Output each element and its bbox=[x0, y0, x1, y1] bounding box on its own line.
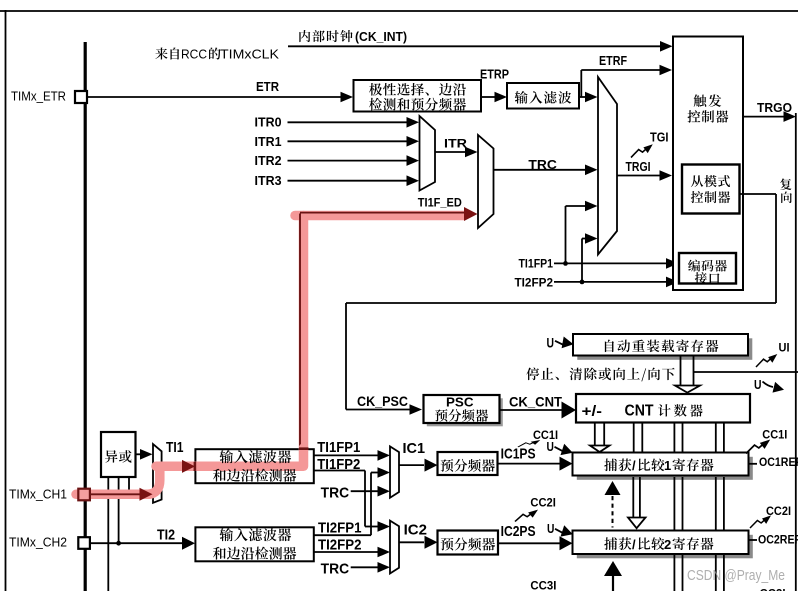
svg-text:CC1I: CC1I bbox=[762, 428, 787, 442]
svg-text:PSC: PSC bbox=[446, 396, 474, 410]
wire: dashed capture arrow (up into CC1) bbox=[612, 496, 614, 528]
wire TRGO bbox=[743, 116, 787, 118]
wire: chip right boundary bbox=[795, 113, 797, 591]
mux: IC1 selector bbox=[390, 446, 399, 497]
svg-text:ITR: ITR bbox=[444, 136, 467, 150]
bus: vertical pair C bbox=[715, 423, 717, 453]
watermark CSDN @Pray_Me bbox=[687, 568, 785, 584]
box: CNT 计数器 (counter) bbox=[576, 394, 750, 423]
mux: IC2 selector bbox=[390, 521, 399, 574]
box: 触发控制器 (trigger controller) bbox=[673, 37, 743, 291]
svg-text:TI1F_ED: TI1F_ED bbox=[418, 196, 462, 210]
wire CK_INT bbox=[288, 45, 662, 47]
frame: figure left border bbox=[5, 10, 7, 591]
mux: TRC source selector bbox=[478, 135, 494, 228]
box: 极性选择、边沿检测和预分频器 bbox=[354, 80, 482, 112]
bus: CNT to CC1 (hollow arrow) bbox=[594, 423, 596, 446]
wire IC1PS bbox=[498, 463, 562, 465]
wire: chip left boundary bbox=[84, 42, 87, 591]
wire: XOR input from CH3 (off-screen) bbox=[107, 477, 109, 591]
svg-text:TI2FP2: TI2FP2 bbox=[515, 275, 554, 289]
svg-text:ETR: ETR bbox=[256, 80, 279, 94]
wire OC1REF bbox=[749, 463, 758, 465]
box: 预分频器 (IC2 prescaler) bbox=[438, 531, 499, 555]
svg-text:U: U bbox=[754, 377, 762, 392]
svg-text:U: U bbox=[547, 336, 555, 351]
label: 停止、清除或向上/向下 bbox=[526, 367, 539, 380]
svg-text:UI: UI bbox=[779, 342, 790, 354]
svg-text:TI2FP2: TI2FP2 bbox=[318, 537, 362, 554]
wire: update event line (right) bbox=[694, 371, 798, 373]
node: junction TI2FP2 bbox=[580, 280, 585, 285]
box: 异或 (XOR) bbox=[101, 432, 136, 477]
bus: vertical pair A (CNT down) bbox=[633, 423, 635, 453]
wire TI1 from CH1 (dark red under highlight) bbox=[90, 493, 141, 495]
svg-text:CNT: CNT bbox=[625, 402, 654, 419]
wire: capture arrow up into CC2 bbox=[612, 574, 614, 591]
box: 输入滤波器和边沿检测器 (channel 1) bbox=[195, 449, 313, 483]
bus: vertical pair C (below CC2) bbox=[715, 555, 717, 591]
svg-text:ITR1: ITR1 bbox=[255, 135, 282, 149]
box: 输入滤波 (ETR input filter) bbox=[507, 83, 579, 109]
wire: slave controller feedback to CK_PSC bbox=[740, 193, 777, 195]
svg-text:TRC: TRC bbox=[321, 561, 350, 578]
svg-text:CC3I: CC3I bbox=[760, 587, 786, 591]
svg-text:U: U bbox=[547, 521, 554, 536]
bus: CC1 to CC2 (hollow arrow) bbox=[632, 477, 634, 518]
svg-text:ITR0: ITR0 bbox=[255, 115, 282, 129]
box: 编码器接口 (encoder interface) bbox=[679, 253, 736, 284]
box: 捕获/比较1寄存器 (capture/compare reg 1, shadowed) bbox=[577, 457, 753, 480]
box: 从模式控制器 (slave mode controller) bbox=[682, 165, 740, 214]
svg-text:+/-: +/- bbox=[582, 403, 603, 420]
wire: XOR input from CH1 bbox=[128, 477, 130, 494]
wire: XOR input from CH2 bbox=[118, 477, 120, 543]
bus: ARR to CNT (hollow arrow) bbox=[680, 356, 682, 386]
wire: highlight crossing marks (box border under band) bbox=[299, 447, 309, 450]
event CC1I (right) bbox=[746, 440, 770, 454]
mux: trigger input selector bbox=[598, 77, 617, 255]
svg-text:(CK_INT): (CK_INT) bbox=[355, 30, 407, 44]
svg-text:OC1REF: OC1REF bbox=[759, 455, 798, 469]
svg-text:IC2: IC2 bbox=[404, 521, 427, 538]
event UI bbox=[756, 354, 777, 367]
bus: vertical pair C (CC1-CC2) bbox=[715, 477, 717, 530]
label: 来自RCC的TIMxCLK bbox=[155, 48, 167, 60]
svg-text:TRGI: TRGI bbox=[626, 160, 651, 174]
mux: TI1 selector bbox=[153, 444, 162, 503]
svg-text:TIMxCLK: TIMxCLK bbox=[220, 47, 279, 62]
red highlight path: TI1F_ED segment (pink band) bbox=[295, 216, 464, 464]
svg-text:TI2FP1: TI2FP1 bbox=[318, 520, 362, 537]
svg-text:IC2PS: IC2PS bbox=[501, 523, 536, 540]
wire: XOR output to TI1 mux bbox=[136, 453, 143, 455]
svg-text:ITR2: ITR2 bbox=[255, 154, 282, 168]
svg-text:CK_PSC: CK_PSC bbox=[357, 394, 408, 409]
svg-text:IC1: IC1 bbox=[403, 440, 426, 457]
svg-text:IC1PS: IC1PS bbox=[501, 445, 536, 462]
box: 自动重装载寄存器 (auto-reload register, shadowed) bbox=[577, 338, 752, 360]
svg-text:TIMx_ETR: TIMx_ETR bbox=[11, 89, 66, 104]
svg-text:TIMx_CH2: TIMx_CH2 bbox=[9, 535, 67, 550]
svg-text:TRGO: TRGO bbox=[757, 101, 792, 115]
wire ETRF branch bbox=[579, 96, 587, 98]
svg-text:TI1: TI1 bbox=[166, 439, 184, 456]
svg-text:TIMx_CH1: TIMx_CH1 bbox=[9, 487, 67, 502]
svg-text:CK_CNT: CK_CNT bbox=[509, 395, 563, 410]
label: 内部时钟 (CK_INT) bbox=[299, 30, 310, 42]
svg-text:RCC: RCC bbox=[181, 47, 207, 62]
svg-text:U: U bbox=[547, 439, 554, 454]
svg-text:TGI: TGI bbox=[650, 131, 669, 145]
bus: vertical pair B (below CC2) bbox=[673, 555, 675, 591]
node: junction XOR-CH2 bbox=[116, 541, 121, 546]
bus: vertical pair B (CC1-CC2) bbox=[673, 477, 675, 530]
svg-text:ITR3: ITR3 bbox=[255, 174, 282, 188]
event TGI bbox=[631, 144, 653, 157]
svg-text:CC2I: CC2I bbox=[766, 504, 791, 518]
svg-text:/: / bbox=[632, 458, 636, 473]
svg-text:2: 2 bbox=[664, 537, 671, 552]
svg-text:CC2I: CC2I bbox=[530, 498, 556, 510]
bus: vertical pair B bbox=[673, 423, 675, 453]
box text: 输入滤波器和边沿检测器 (channel 1) bbox=[220, 450, 233, 463]
svg-text:ETRP: ETRP bbox=[480, 67, 509, 82]
svg-text:CSDN @Pray_Me: CSDN @Pray_Me bbox=[687, 568, 785, 584]
svg-text:TRC: TRC bbox=[321, 485, 350, 502]
wire IC2PS bbox=[498, 542, 561, 544]
label: 复位/向 (clipped at right edge) bbox=[780, 178, 791, 190]
svg-text:TI1FP1: TI1FP1 bbox=[519, 257, 554, 271]
svg-text:1: 1 bbox=[664, 458, 671, 473]
box: 捕获/比较2寄存器 (capture/compare reg 2, shadowed) bbox=[577, 535, 753, 559]
box: 输入滤波器和边沿检测器 (channel 2) bbox=[195, 527, 313, 561]
mux: ITR selector bbox=[420, 116, 436, 191]
box: 预分频器 (IC1 prescaler) bbox=[438, 452, 498, 475]
box: PSC 预分频器 (prescaler, shadowed) bbox=[427, 398, 503, 426]
frame: figure top border bbox=[0, 10, 798, 12]
svg-text:TI2: TI2 bbox=[157, 527, 175, 544]
node: junction TI1FP1 bbox=[563, 261, 568, 266]
svg-text:CC1I: CC1I bbox=[533, 430, 558, 442]
event CC2I (right) bbox=[750, 515, 771, 528]
svg-text:/: / bbox=[632, 537, 636, 552]
svg-text:TI1FP1: TI1FP1 bbox=[317, 439, 360, 456]
svg-text:CC3I: CC3I bbox=[530, 581, 556, 591]
wire TI1F_ED vertical (dark red under highlight) bbox=[299, 214, 301, 449]
red highlight path: TIMx_CH1/TI1 segment (pink band) bbox=[76, 448, 304, 494]
svg-text:ETRF: ETRF bbox=[599, 53, 627, 68]
svg-text:OC2REF: OC2REF bbox=[758, 532, 798, 546]
event CC2I (left) bbox=[515, 510, 538, 522]
event CC1I (left) bbox=[518, 440, 540, 447]
wire OC2REF bbox=[749, 539, 758, 541]
